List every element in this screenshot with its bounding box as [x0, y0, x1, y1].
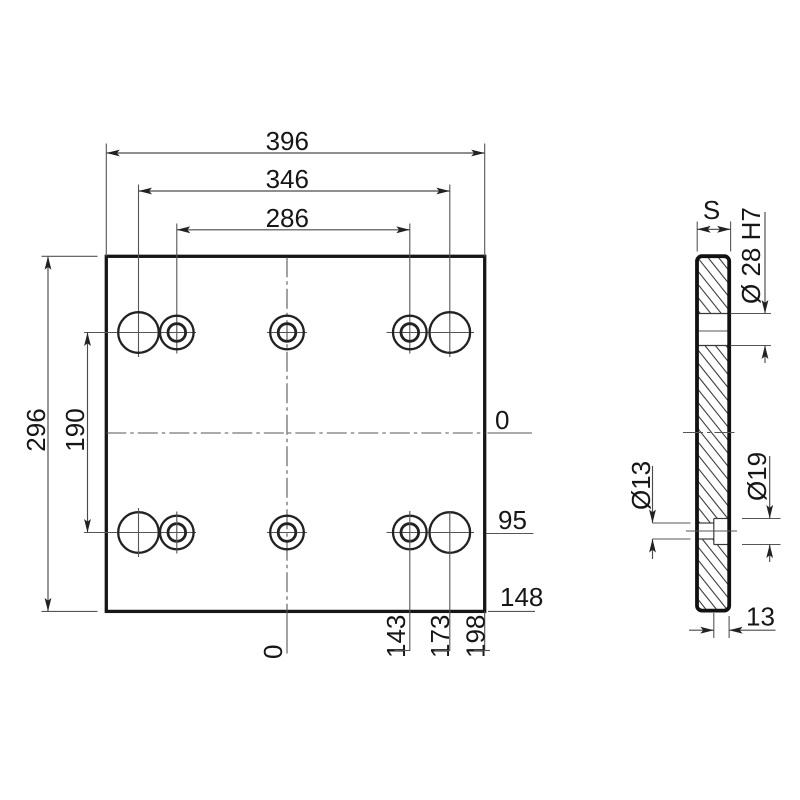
svg-text:296: 296: [21, 408, 51, 451]
svg-text:396: 396: [266, 126, 309, 156]
row line bottom middle tick: [267, 532, 307, 534]
right ordinate 148 label and line: [488, 610, 535, 612]
centre tick bottom-left big hole: [138, 508, 140, 557]
extension line 396 left: [105, 144, 107, 257]
svg-text:346: 346: [266, 164, 309, 194]
svg-text:Ø 28 H7: Ø 28 H7: [736, 207, 766, 304]
row line top left segment: [84, 332, 196, 334]
hole E1 Ø28 top-right: [430, 312, 471, 353]
hole E2 Ø28 bottom-right: [430, 512, 471, 553]
top row centre mark in section: [698, 330, 727, 332]
extension line 346 left / hole axis: [138, 185, 140, 358]
vertical centreline through middle holes: [286, 257, 288, 611]
dimension 286: [177, 229, 410, 231]
svg-text:286: 286: [266, 203, 309, 233]
svg-text:143: 143: [381, 615, 411, 658]
svg-text:198: 198: [461, 615, 491, 658]
horizontal centreline 0: [106, 432, 484, 434]
svg-text:0: 0: [258, 645, 288, 659]
hole C1 top-middle: [270, 316, 304, 350]
svg-text:Ø19: Ø19: [742, 452, 772, 501]
svg-text:13: 13: [746, 602, 775, 632]
centre tick bottom-left small hole: [176, 512, 178, 554]
right ordinate 95 label and line: [487, 533, 534, 535]
right ordinate 0 label and line: [488, 432, 533, 434]
dimension 13 (bottom): [713, 613, 715, 638]
ordinate 173 extension line: [449, 511, 451, 651]
svg-text:148: 148: [500, 582, 543, 612]
row line bottom left segment: [84, 532, 196, 534]
row line top right segment: [387, 332, 475, 334]
svg-text:95: 95: [498, 505, 527, 535]
centreline through section (0): [683, 432, 738, 434]
hole B2 bottom-left small: [160, 516, 194, 550]
extension line 346 right / hole axis: [449, 185, 451, 358]
svg-text:Ø13: Ø13: [626, 461, 656, 510]
dimension 190 (left): [87, 333, 89, 533]
dimension 296 (left): [47, 256, 49, 611]
dimension Ø13: [653, 522, 691, 524]
hole A1 Ø28 top-left: [118, 312, 159, 353]
svg-text:173: 173: [425, 615, 455, 658]
row line bottom right segment: [387, 532, 475, 534]
hole band Ø13 in section: [699, 523, 714, 539]
section body (side view): [697, 256, 729, 610]
svg-text:0: 0: [495, 405, 509, 435]
dimension 396: [106, 152, 484, 154]
hole D1 top-right small: [393, 316, 427, 350]
dimension Ø28 H7: [731, 313, 772, 315]
row line top middle tick: [267, 332, 307, 334]
dimension Ø19: [742, 518, 781, 520]
hole C2 bottom-middle: [270, 516, 304, 550]
hole B1 top-left small: [160, 316, 194, 350]
dimension 346: [139, 190, 450, 192]
extension line 286 left / hole axis: [176, 224, 178, 354]
ordinate 0 extension below plate: [286, 611, 288, 653]
plate outline (front view 396x296): [106, 256, 484, 611]
section outline: [697, 256, 729, 610]
hole A2 Ø28 bottom-left: [118, 512, 159, 553]
extension line 286 right / hole axis: [409, 224, 411, 354]
svg-text:190: 190: [60, 408, 90, 451]
hole D2 bottom-right small: [393, 516, 427, 550]
extension line 396 right: [484, 144, 486, 257]
bottom row centre mark in section: [686, 530, 737, 532]
svg-text:S: S: [703, 195, 720, 225]
hole band Ø28 in section: [699, 314, 728, 346]
dimension S (thickness): [696, 222, 698, 252]
ordinate 198 extension line below plate: [484, 611, 486, 651]
ordinate 143 extension line: [409, 511, 411, 651]
counterbore Ø19 notch in section: [714, 519, 728, 545]
